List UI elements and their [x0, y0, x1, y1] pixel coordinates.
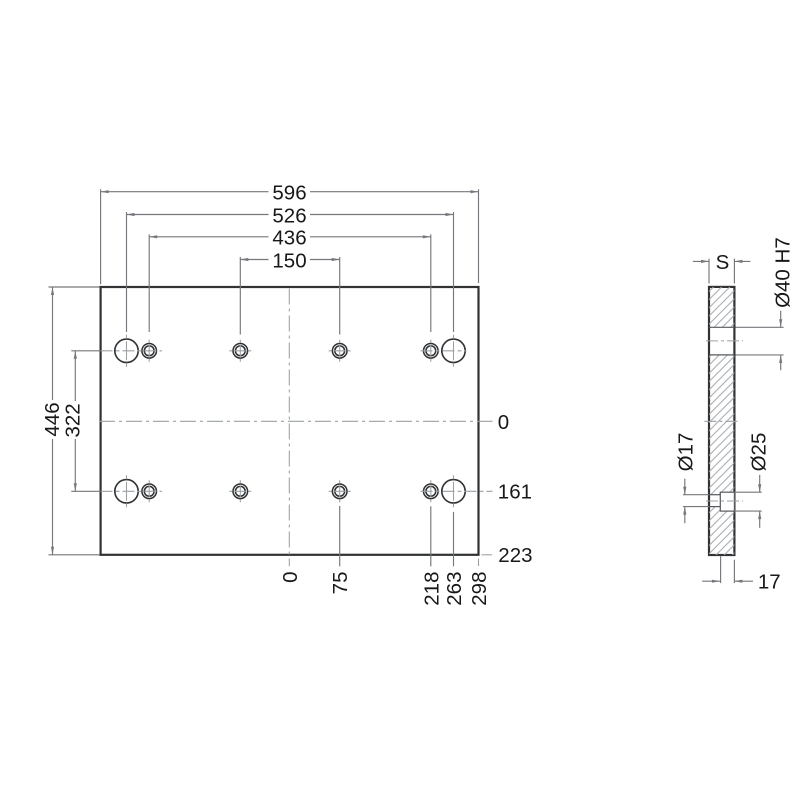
dimension 150: [240, 259, 268, 261]
hole small bottom-mid-right: [332, 484, 347, 499]
svg-text:263: 263: [443, 572, 466, 606]
svg-text:75: 75: [329, 572, 352, 595]
top-left row centerline: [71, 350, 100, 352]
plate outline (front view): [101, 287, 479, 555]
label 223: [482, 554, 493, 556]
svg-text:298: 298: [468, 572, 491, 606]
dimension Ø17: [684, 479, 686, 495]
svg-text:Ø25: Ø25: [747, 433, 770, 472]
hole small bottom-left: [142, 484, 157, 499]
dimension S: [693, 260, 709, 262]
hole big top-right: [442, 339, 465, 362]
top-right row centerline: [421, 350, 467, 352]
horizontal centerline (datum 0): [99, 420, 493, 422]
dimension Ø40 H7: [780, 311, 782, 328]
svg-text:17: 17: [758, 571, 781, 594]
dimension 446: [52, 287, 54, 400]
hole small bottom-mid-left: [233, 484, 248, 499]
label 298 + extension: [478, 559, 480, 567]
svg-text:150: 150: [272, 249, 306, 272]
counterbore Ø25 box: [720, 492, 734, 511]
svg-text:0: 0: [498, 411, 509, 434]
vertical centerline (datum 0): [288, 289, 290, 567]
hole big bottom-left: [115, 480, 138, 503]
svg-text:526: 526: [272, 204, 306, 227]
bottom-left row centerline: [71, 490, 100, 492]
dimension 436: [149, 236, 268, 238]
dimension 526: [127, 214, 269, 216]
dimension Ø25: [759, 475, 761, 492]
hole big top-left: [115, 339, 138, 362]
label 263 + extension: [453, 512, 455, 566]
side view centerline bottom bore: [706, 500, 743, 502]
section plate outline (side view): [709, 287, 734, 555]
side view main axis centerline: [704, 420, 740, 422]
side view centerline Ø40: [706, 340, 743, 342]
svg-text:446: 446: [41, 402, 64, 436]
svg-text:161: 161: [498, 481, 532, 504]
label 218 + extension: [430, 506, 432, 566]
hole small top-mid-left: [233, 344, 248, 359]
svg-text:223: 223: [498, 544, 532, 567]
svg-text:0: 0: [279, 572, 302, 583]
svg-text:322: 322: [62, 403, 85, 437]
svg-text:218: 218: [420, 572, 443, 606]
svg-text:596: 596: [272, 182, 306, 205]
bottom-right row centerline to 161 label: [421, 490, 493, 492]
svg-text:436: 436: [272, 227, 306, 250]
hole small top-mid-right: [332, 344, 347, 359]
dimension 17: [720, 556, 722, 583]
svg-text:S: S: [716, 251, 730, 274]
section hatching: [709, 287, 734, 327]
bore Ø40 band edges: [709, 326, 734, 328]
svg-text:Ø17: Ø17: [674, 433, 697, 472]
dimension 322: [74, 351, 76, 401]
svg-text:Ø40 H7: Ø40 H7: [772, 237, 795, 308]
bore Ø17 band edges: [709, 494, 720, 496]
label 75 + extension: [339, 506, 341, 566]
hole small bottom-right: [424, 484, 439, 499]
hole big bottom-right: [442, 480, 465, 503]
dimension 596: [101, 191, 269, 193]
hole small top-right: [424, 344, 439, 359]
hole small top-left: [142, 344, 157, 359]
